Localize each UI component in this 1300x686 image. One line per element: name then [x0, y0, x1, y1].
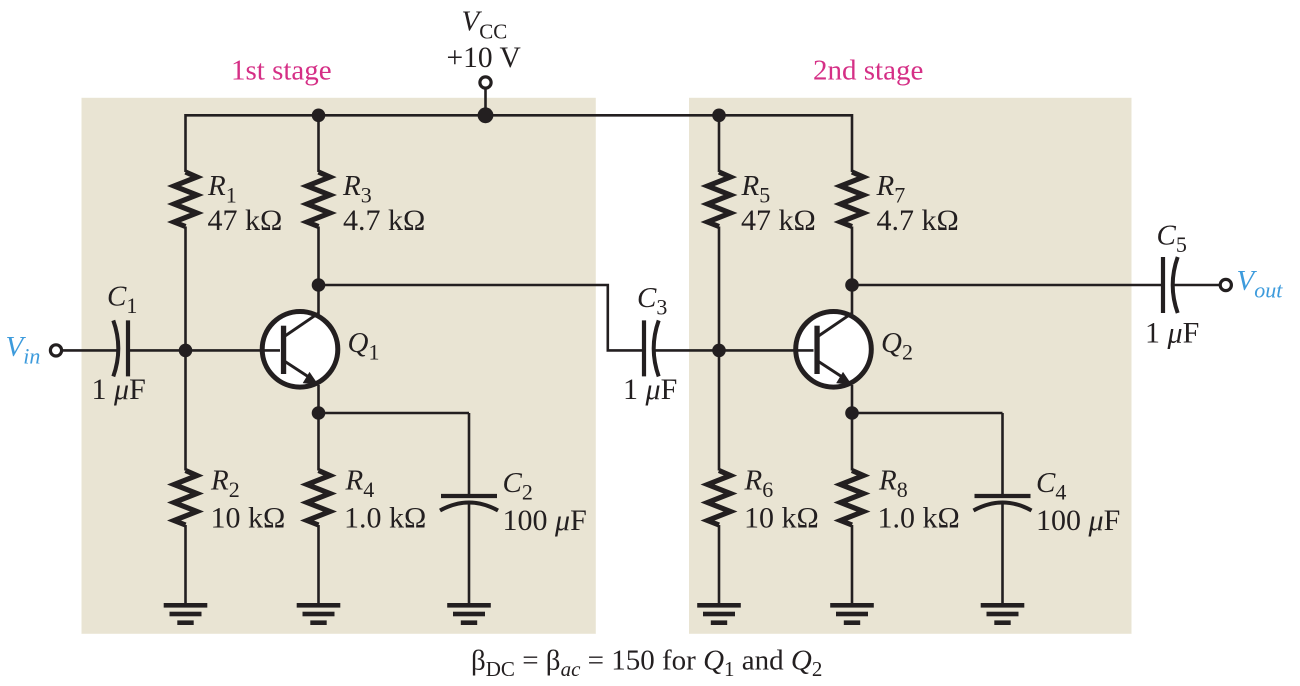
svg-text:VCC: VCC [462, 6, 508, 44]
capacitor C3 straight plate [642, 320, 646, 376]
resistor R4 [307, 471, 330, 526]
wire top supply rail [186, 114, 853, 117]
resistor R5 [708, 172, 731, 227]
wire Q1 collector stub [317, 285, 320, 315]
svg-text:1 μF: 1 μF [1145, 317, 1199, 350]
wire C5 to Vout [1175, 284, 1220, 287]
svg-text:1 μF: 1 μF [623, 373, 677, 406]
wire R8 bottom [851, 525, 854, 604]
wire Q1 emitter stub [317, 385, 320, 413]
wire R2 bottom [184, 525, 187, 604]
wire R7 bottom [851, 227, 854, 286]
wire base node to Q2 [719, 349, 821, 352]
wire R8 top [851, 413, 854, 471]
node R5 top junction [712, 109, 726, 123]
svg-text:C3: C3 [637, 282, 667, 320]
capacitor C5 straight plate [1161, 257, 1165, 313]
wire emitter to C2 [319, 412, 470, 415]
ground C4 [981, 603, 1025, 625]
svg-text:+10 V: +10 V [447, 42, 521, 74]
wire R3 top [317, 115, 320, 172]
capacitor C2 curved plate [440, 503, 498, 511]
node Q2 collector junction [845, 278, 859, 292]
wire C1 to base node [128, 349, 186, 352]
wire C4 bottom [1001, 503, 1004, 604]
ground R2 [164, 603, 208, 625]
1st stage background box [82, 98, 596, 634]
wire stage1 output (collector to C3) [319, 285, 645, 350]
wire R2 top [184, 350, 187, 470]
node Q2 emitter junction [845, 406, 859, 420]
wire emitter to C4 [852, 412, 1003, 415]
transistor Q1 [260, 312, 338, 388]
wire R6 bottom [718, 525, 721, 604]
svg-text:10 kΩ: 10 kΩ [744, 502, 819, 535]
resistor R1 [174, 172, 197, 227]
capacitor C4 top plate [975, 494, 1031, 498]
node Q2 base junction [712, 344, 726, 358]
capacitor C4 curved plate [974, 503, 1032, 511]
svg-text:100 μF: 100 μF [1036, 504, 1120, 537]
wire C2 top [468, 413, 471, 494]
transistor Q2 [794, 312, 872, 388]
resistor R2 [174, 471, 197, 526]
node Q1 emitter junction [312, 406, 326, 420]
resistor R3 [307, 172, 330, 227]
svg-text:10 kΩ: 10 kΩ [211, 502, 286, 535]
ground R8 [830, 603, 874, 625]
wire R4 bottom [317, 525, 320, 604]
svg-text:C5: C5 [1157, 220, 1187, 258]
svg-text:βDC = βac = 150 for Q1 and Q2: βDC = βac = 150 for Q1 and Q2 [471, 645, 822, 682]
ground R6 [697, 603, 741, 625]
svg-text:1.0 kΩ: 1.0 kΩ [878, 502, 960, 535]
svg-text:4.7 kΩ: 4.7 kΩ [877, 204, 959, 237]
node Q1 collector junction [312, 278, 326, 292]
wire R1 top [184, 114, 187, 172]
svg-text:Vout: Vout [1237, 265, 1284, 303]
VCC terminal [480, 77, 491, 88]
resistor R7 [841, 172, 864, 227]
wire R5 top [718, 114, 721, 172]
wire R1 bottom [184, 227, 187, 351]
svg-text:1.0 kΩ: 1.0 kΩ [344, 502, 426, 535]
node VCC junction [478, 107, 494, 123]
capacitor C1 straight plate [126, 320, 130, 376]
svg-text:4.7 kΩ: 4.7 kΩ [343, 204, 425, 237]
svg-text:47 kΩ: 47 kΩ [208, 204, 283, 237]
wire R3 bottom [317, 227, 320, 286]
resistor R8 [841, 471, 864, 526]
wire Q2 emitter stub [851, 385, 854, 413]
capacitor C5 curved plate [1173, 257, 1178, 313]
wire C4 top [1001, 413, 1004, 494]
wire R5 bottom [718, 227, 721, 351]
wire R4 top [317, 413, 320, 471]
capacitor C3 curved plate [654, 320, 659, 376]
svg-text:47 kΩ: 47 kΩ [741, 204, 816, 237]
svg-text:2nd stage: 2nd stage [813, 55, 923, 87]
svg-text:1 μF: 1 μF [92, 373, 146, 406]
wire Vin to C1 [62, 349, 116, 352]
terminal Vin [50, 345, 61, 356]
ground R4 [297, 603, 341, 625]
ground C2 [447, 603, 491, 625]
wire Q2 collector stub [851, 285, 854, 315]
svg-text:Vin: Vin [6, 331, 41, 369]
node R3 top junction [312, 109, 326, 123]
svg-text:1st stage: 1st stage [231, 55, 332, 87]
capacitor C1 curved plate [113, 320, 118, 376]
resistor R6 [708, 471, 731, 526]
node Q1 base junction [179, 344, 193, 358]
wire stage2 output (collector to C5) [852, 284, 1163, 287]
wire C2 bottom [468, 503, 471, 604]
wire base node to Q1 [186, 349, 288, 352]
wire R6 top [718, 350, 721, 470]
wire VCC stub [484, 89, 487, 115]
2nd stage background box [689, 98, 1132, 634]
wire C3 to Q2 base node [656, 349, 720, 352]
terminal Vout [1220, 279, 1231, 290]
svg-text:100 μF: 100 μF [503, 504, 587, 537]
capacitor C2 top plate [441, 494, 497, 498]
wire R7 top [851, 114, 854, 172]
